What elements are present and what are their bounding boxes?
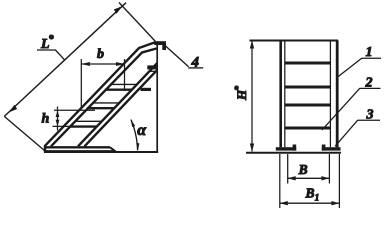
svg-text:b: b — [97, 47, 104, 62]
dimension line L* — [4, 3, 126, 117]
left foot item 3 — [276, 145, 296, 151]
step 2 tread — [105, 84, 137, 89]
svg-text:α: α — [137, 122, 147, 139]
dimension B — [288, 154, 330, 184]
right foot — [322, 145, 341, 151]
dimension h — [42, 107, 96, 131]
angle alpha arc — [131, 119, 148, 151]
callout 2 — [322, 75, 381, 130]
dimension B1 — [280, 154, 340, 208]
dimension b — [81, 47, 124, 109]
svg-text:1: 1 — [315, 193, 320, 203]
rung 2 — [285, 86, 331, 89]
ground line right figure — [246, 152, 341, 154]
svg-text:*: * — [49, 34, 55, 45]
svg-text:B: B — [298, 162, 308, 177]
callout 4 leader — [165, 46, 203, 71]
right stringer front view — [330, 41, 337, 148]
step 1 stub — [147, 65, 157, 69]
wall vertical line — [156, 44, 158, 152]
hook item 4 — [154, 41, 166, 50]
far stringer (to hook) — [45, 43, 157, 147]
extension line from foot to L* — [4, 116, 44, 150]
top bar — [250, 40, 339, 42]
dimension H* — [233, 41, 254, 152]
svg-text:*: * — [233, 86, 243, 91]
step 2 stub — [141, 88, 152, 91]
callout 3 — [335, 107, 380, 146]
rung 4 — [285, 127, 331, 130]
svg-text:4: 4 — [191, 54, 200, 70]
step 4 tread — [70, 121, 102, 126]
svg-text:2: 2 — [365, 75, 373, 90]
callout 1 — [337, 45, 381, 78]
label L* with shelf leader — [37, 34, 65, 60]
near stringer — [78, 63, 157, 146]
svg-text:3: 3 — [366, 107, 374, 122]
rung 3 — [285, 104, 331, 107]
rung 1 — [285, 62, 331, 65]
step 1 tread — [149, 70, 156, 72]
svg-text:1: 1 — [366, 45, 373, 60]
step 3 tread — [87, 103, 119, 108]
ground line left figure — [44, 151, 158, 153]
svg-text:h: h — [42, 112, 50, 127]
bottom sill bar — [44, 146, 116, 152]
svg-text:B: B — [305, 185, 315, 200]
extension line from hook to L* — [119, 3, 156, 42]
left stringer front view — [281, 41, 285, 148]
